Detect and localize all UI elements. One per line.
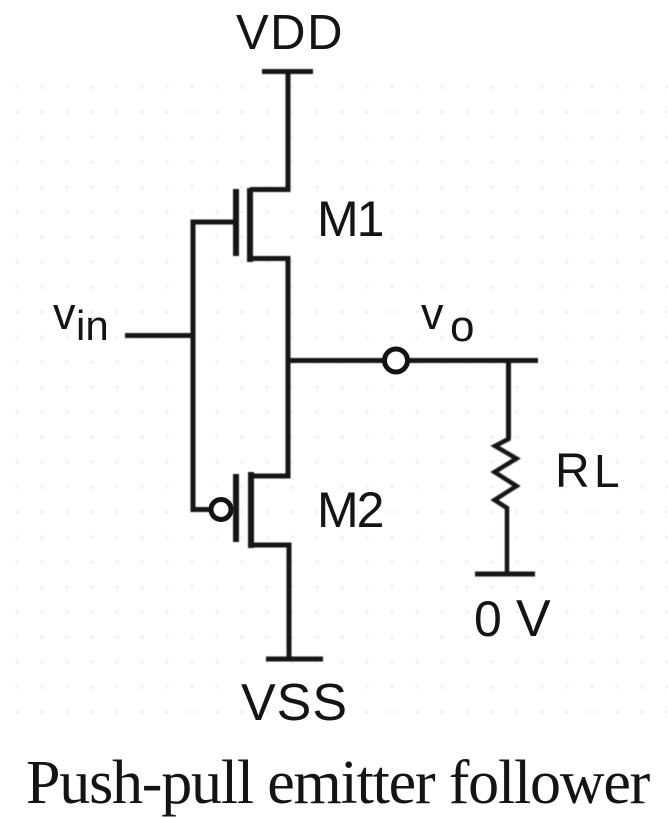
- svg-text:0: 0: [474, 591, 502, 647]
- svg-text:M2: M2: [317, 482, 383, 538]
- svg-text:VSS: VSS: [241, 674, 348, 732]
- svg-text:M1: M1: [317, 191, 383, 247]
- svg-text:o: o: [450, 302, 474, 351]
- svg-text:VDD: VDD: [236, 6, 344, 60]
- svg-text:R: R: [555, 445, 590, 498]
- svg-text:v: v: [421, 288, 444, 339]
- svg-text:Push-pull emitter follower: Push-pull emitter follower: [26, 749, 651, 817]
- svg-text:v: v: [53, 288, 76, 339]
- svg-text:L: L: [594, 445, 620, 497]
- svg-text:in: in: [76, 302, 109, 349]
- svg-text:V: V: [516, 590, 551, 648]
